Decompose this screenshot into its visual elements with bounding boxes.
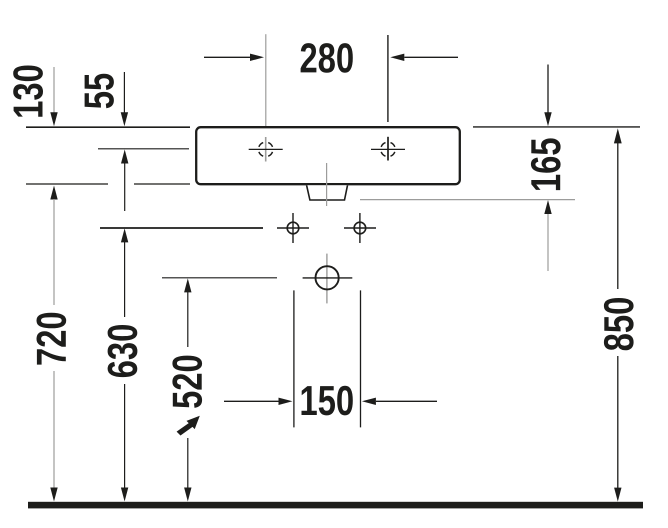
label 630 <box>108 325 138 377</box>
dim 55: lower arrow shaft <box>124 163 126 211</box>
dim 280: left extension line <box>265 34 267 126</box>
dim 165: upper arrow shaft <box>547 65 549 114</box>
dim 280: right extension line <box>387 35 389 122</box>
dim 165: lower arrow shaft <box>547 214 549 271</box>
dim 280: left arrowhead (right) <box>250 54 264 61</box>
drain centre line <box>326 163 328 206</box>
floor line <box>28 502 643 509</box>
dim 520: lower arrowhead (down) <box>184 488 191 502</box>
dim 280: left arrow shaft <box>204 56 250 58</box>
dim 55: lower arrowhead (up) <box>121 150 128 164</box>
dim 630: lower arrowhead (down) <box>121 488 128 502</box>
dim 130/720 label line: up arrowhead at basin bottom <box>50 186 57 200</box>
adjustable-height bold arrow <box>177 416 200 436</box>
dim 630: upper arrowhead (up) <box>121 228 128 242</box>
dim 165: lower arrowhead (up) <box>544 200 551 214</box>
dim 630: shaft lower part <box>124 384 126 489</box>
dim 520: shaft lower part <box>187 438 189 489</box>
label 720 <box>37 313 67 365</box>
dim 850: lower arrowhead (down) <box>614 488 621 502</box>
label 280 <box>301 43 353 73</box>
siphon level line (520 reference) <box>162 277 277 279</box>
label 130 <box>13 66 43 117</box>
label 165 <box>531 138 561 190</box>
label 150 <box>302 386 353 416</box>
dim 150: right extension line <box>360 290 362 427</box>
tap hole marker left: dashed circle <box>259 143 273 157</box>
dim 165: upper arrowhead (down) <box>544 112 551 126</box>
dim 850: shaft upper part <box>617 141 619 289</box>
fixing hole left: circle <box>287 222 299 234</box>
tap hole marker right: dashed circle <box>381 143 395 157</box>
label 850 <box>604 298 634 350</box>
dim 150: left arrow shaft <box>224 400 279 402</box>
basin body outline <box>196 127 460 184</box>
dim 630: shaft upper part <box>124 242 126 317</box>
basin bottom level line left segment B <box>134 183 190 185</box>
drain/overflow trapezoid <box>307 185 348 200</box>
siphon hole crosshair <box>326 254 328 304</box>
dim 130: upper arrow shaft <box>53 67 55 113</box>
dim 720: lower arrowhead (down) <box>50 488 57 502</box>
dim 150: left extension line <box>293 290 295 427</box>
dim 850: upper arrowhead (up) <box>614 128 622 143</box>
siphon hole circle <box>316 266 339 289</box>
wall/rim level line right segment <box>473 126 640 128</box>
dim 720: shaft upper part <box>53 199 55 305</box>
basin bottom level line left segment A <box>26 183 108 185</box>
dim 520: upper arrowhead (up) <box>184 278 191 292</box>
dim 150: right arrowhead (left) <box>362 398 376 405</box>
label 55 <box>85 74 114 109</box>
dim 850: shaft lower part <box>617 356 619 488</box>
tap-hole level extension line (55) <box>98 148 189 150</box>
tap hole marker right: vertical centreline <box>387 137 389 161</box>
tap hole marker right: horizontal centreline <box>371 148 405 150</box>
overflow level line right (165 reference) <box>360 199 575 201</box>
dim 55: upper arrow shaft <box>123 72 125 113</box>
dim 55: upper arrowhead (down) <box>121 112 128 126</box>
dim 150: left arrowhead (right) <box>279 398 293 405</box>
label 520 <box>172 356 202 408</box>
fixing-hole level line (630 reference) <box>100 227 263 229</box>
dim 720: shaft lower part <box>53 371 55 489</box>
dim 520: shaft upper part <box>187 292 189 347</box>
dim 280: right arrow shaft <box>404 56 458 58</box>
fixing hole right: crosshair <box>344 227 376 229</box>
dim 280: right arrowhead (left) <box>390 54 404 61</box>
dim 130: upper arrowhead (down) <box>50 112 57 126</box>
tap hole marker left: horizontal centreline <box>249 148 283 150</box>
wall/rim level line left segment <box>26 126 190 128</box>
fixing hole right: circle <box>354 222 366 234</box>
fixing hole left: crosshair <box>277 227 309 229</box>
dim 150: right arrow shaft <box>376 400 437 402</box>
tap hole marker left: vertical centreline <box>265 137 267 162</box>
